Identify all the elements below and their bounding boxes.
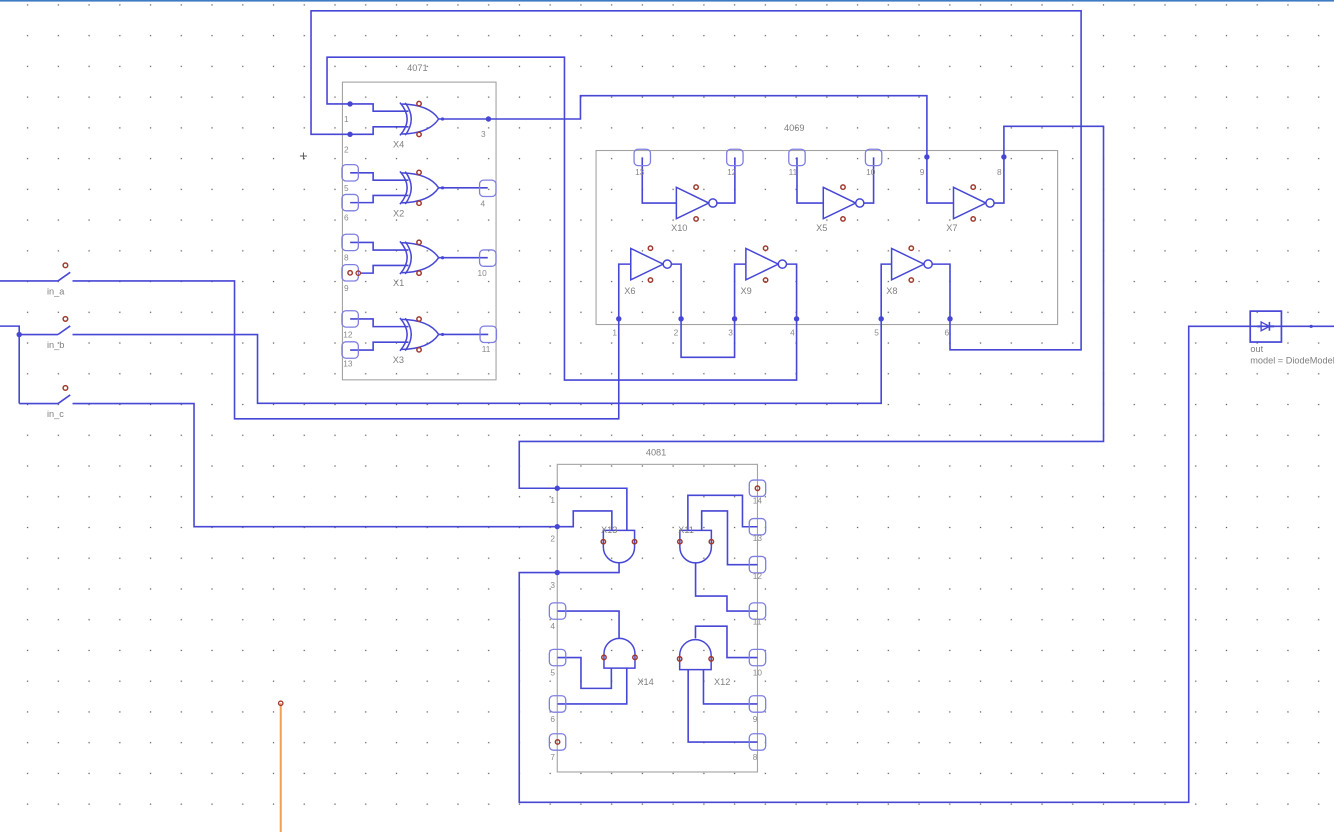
svg-text:in_c: in_c	[47, 409, 64, 419]
svg-text:3: 3	[481, 129, 486, 139]
svg-text:8: 8	[344, 253, 349, 263]
node 4081 pin 1	[555, 486, 560, 491]
wire net X9 out to X4 pin 1	[327, 57, 797, 380]
highlighted net (orange)	[279, 701, 283, 832]
svg-text:9: 9	[753, 714, 758, 724]
svg-text:8: 8	[997, 167, 1002, 177]
terminal 4071 pin 8	[342, 234, 358, 250]
wire net X7 out to 4081 pin 1 / X13 input B	[519, 126, 1103, 530]
node 4069 pin 8	[1001, 154, 1006, 159]
wire net in_c to 4081 pin 2 / X13 input A	[73, 404, 612, 531]
svg-text:12: 12	[753, 571, 763, 581]
terminal 4071 pin 9 (open)	[342, 265, 358, 281]
terminal 4081 pin 10	[749, 649, 765, 665]
wire 4081 pin 12 to X11 input B	[702, 511, 758, 565]
wire X2 pin 6 lead	[350, 195, 408, 202]
wire X1 pin 9 lead	[361, 265, 409, 273]
svg-text:X12: X12	[714, 677, 730, 687]
svg-text:14: 14	[753, 495, 763, 505]
terminal 4081 pin 5	[549, 649, 565, 665]
terminal 4081 pin 8	[749, 734, 765, 750]
wire X1 output to pin 10	[439, 257, 488, 259]
wire X1 pin 8 lead	[350, 242, 408, 250]
wire 4069 pin 13 to X10 input	[642, 157, 676, 203]
wire X2 output to pin 4	[439, 187, 488, 189]
svg-text:13: 13	[635, 167, 645, 177]
svg-text:X7: X7	[946, 223, 957, 233]
svg-text:3: 3	[550, 580, 555, 590]
wire X3 pin 12 lead	[350, 319, 408, 327]
wire X5 output to pin 10	[863, 157, 874, 203]
terminal 4071 pin 12	[342, 311, 358, 327]
terminal 4071 pin 6	[342, 194, 358, 210]
wire X2 pin 5 lead	[350, 173, 408, 180]
node 4069 pin 4	[794, 316, 799, 321]
terminal 4069 pin 12	[727, 149, 743, 165]
svg-text:5: 5	[550, 668, 555, 678]
terminal 4081 pin 6	[549, 696, 565, 712]
terminal 4071 pin 4	[480, 180, 496, 196]
svg-text:X2: X2	[393, 208, 404, 218]
svg-text:11: 11	[753, 617, 762, 627]
xor gate X2	[400, 170, 444, 205]
switch in_b	[58, 317, 70, 335]
wire 4081 pin 8 to X12 input A	[688, 670, 757, 743]
node in_b tap	[17, 332, 22, 337]
and gate X14 (output up)	[602, 638, 637, 668]
svg-text:1: 1	[612, 328, 617, 338]
svg-text:6: 6	[344, 213, 349, 223]
terminal 4071 pin 11	[480, 326, 496, 342]
node X4 pin 1	[347, 101, 352, 106]
inverter X8	[892, 246, 933, 282]
wire net X8 out to X4 pin 2	[311, 11, 1081, 350]
wire in_b source from left edge	[0, 326, 19, 403]
inverter X10	[676, 185, 717, 221]
svg-text:8: 8	[753, 752, 758, 762]
terminal 4081 pin 14 (open)	[749, 480, 765, 496]
terminal 4069 pin 13	[634, 149, 650, 165]
terminal 4069 pin 11	[789, 149, 805, 165]
IC 4071 boundary box	[342, 82, 496, 380]
node 4069 pin 3	[732, 316, 737, 321]
svg-text:X5: X5	[816, 223, 827, 233]
wire X12 output to pin 10	[695, 626, 757, 657]
wire 4069 pin 11 to X5 input	[797, 157, 823, 203]
svg-text:model = DiodeModel: model = DiodeModel	[1250, 356, 1334, 366]
terminal 4071 pin 5	[342, 165, 358, 181]
wire X3 pin 13 lead	[350, 342, 408, 350]
origin marker +	[300, 153, 307, 160]
svg-text:9: 9	[920, 167, 925, 177]
svg-text:4: 4	[480, 198, 485, 208]
svg-text:X3: X3	[393, 355, 404, 365]
wire net in_a to 4069 pin 1 / X6 input	[73, 264, 631, 419]
svg-text:5: 5	[344, 183, 349, 193]
switch in_c	[58, 386, 70, 404]
node 4069 pin 6	[947, 316, 952, 321]
svg-text:in_a: in_a	[47, 287, 65, 297]
terminal 4071 pin 13	[342, 342, 358, 358]
node 4069 pin 5	[878, 316, 883, 321]
inverter X7	[953, 185, 994, 221]
terminal 4081 pin 11	[749, 603, 765, 619]
wire 4081 pin 4 to X14 output	[558, 611, 620, 639]
svg-text:2: 2	[674, 328, 679, 338]
wire 4081 pin 6 to X14 input B	[558, 668, 627, 704]
svg-text:10: 10	[866, 167, 876, 177]
svg-text:12: 12	[727, 167, 737, 177]
svg-text:1: 1	[344, 114, 349, 124]
node out wire	[1310, 325, 1313, 328]
svg-text:X13: X13	[601, 525, 617, 535]
svg-text:out: out	[1250, 344, 1263, 354]
wire X10 output to pin 12	[716, 157, 735, 203]
svg-text:X1: X1	[393, 278, 404, 288]
svg-text:5: 5	[874, 328, 879, 338]
svg-text:9: 9	[344, 283, 349, 293]
terminal 4081 pin 9	[749, 696, 765, 712]
wire net X13 out / 4081 pin 3 to diode out	[519, 326, 1334, 802]
inverter X6	[631, 246, 672, 282]
and gate X11 (output down)	[678, 530, 714, 563]
terminal 4081 pin 13	[749, 519, 765, 535]
svg-text:12: 12	[343, 329, 353, 339]
svg-text:X10: X10	[671, 223, 687, 233]
svg-text:13: 13	[343, 358, 353, 368]
node 4081 pin 3	[555, 570, 560, 575]
svg-text:11: 11	[789, 167, 798, 177]
wire net X6 out to X9 input	[670, 264, 745, 357]
svg-text:4069: 4069	[784, 123, 804, 133]
open pin X1 input 9	[356, 271, 360, 275]
xor gate X1	[400, 240, 444, 275]
svg-text:13: 13	[753, 533, 763, 543]
wire in_c switch left lead	[19, 403, 58, 405]
wire 4081 pin 9 to X12 input B	[703, 670, 757, 704]
node 4069 pin 2	[678, 316, 683, 321]
IC 4081 boundary box	[557, 464, 757, 772]
svg-text:in_b: in_b	[47, 340, 64, 350]
xor gate X3	[400, 317, 444, 352]
wire 4081 pin 13 to X11 input A	[688, 495, 758, 530]
node 4069 pin 1	[616, 316, 621, 321]
terminal 4069 pin 10	[865, 149, 881, 165]
svg-text:10: 10	[753, 668, 763, 678]
svg-text:1: 1	[550, 495, 555, 505]
svg-text:2: 2	[344, 144, 349, 154]
and gate X12 (output up)	[677, 640, 713, 670]
IC 4069 boundary box	[596, 151, 1058, 325]
wire net X4 out to 4069 pin 9 / X7 input	[439, 96, 954, 203]
inverter X5	[823, 185, 864, 221]
and gate X13 (output down)	[601, 530, 637, 562]
node 4069 pin 9	[924, 154, 929, 159]
wire X4 pin 1 lead	[350, 104, 409, 111]
xor gate X4	[400, 101, 444, 136]
svg-text:10: 10	[478, 268, 488, 278]
terminal 4071 pin 10	[480, 250, 496, 266]
svg-text:X14: X14	[637, 677, 653, 687]
wire X4 pin 2 lead	[350, 127, 409, 135]
svg-text:6: 6	[550, 714, 555, 724]
node X4 output	[486, 116, 491, 121]
svg-text:11: 11	[482, 344, 491, 354]
svg-text:2: 2	[550, 533, 555, 543]
svg-text:X4: X4	[393, 140, 404, 150]
wire X11 output to pin 11	[696, 563, 758, 611]
svg-text:X8: X8	[886, 286, 897, 296]
svg-text:3: 3	[728, 328, 733, 338]
svg-text:7: 7	[550, 752, 555, 762]
svg-text:X11: X11	[678, 525, 694, 535]
wire in_b switch left lead	[19, 334, 58, 336]
svg-text:4081: 4081	[646, 447, 666, 457]
svg-text:X9: X9	[740, 286, 751, 296]
wire net in_b to 4069 pin 5 / X8 input	[73, 264, 892, 403]
wire in_a left lead	[0, 280, 58, 282]
svg-text:4: 4	[790, 328, 795, 338]
wire 4081 pin 5 to X14 input A	[558, 658, 612, 689]
window top bar	[0, 0, 1334, 2]
node 4081 pin 2	[555, 524, 560, 529]
terminal 4081 pin 7 (open)	[549, 734, 565, 750]
svg-text:4071: 4071	[407, 63, 427, 73]
switch in_a	[58, 263, 70, 281]
terminal 4081 pin 4	[549, 603, 565, 619]
svg-text:6: 6	[944, 328, 949, 338]
svg-text:4: 4	[550, 621, 555, 631]
svg-text:X6: X6	[624, 286, 635, 296]
wire X3 output to pin 11	[439, 333, 489, 335]
terminal 4081 pin 12	[749, 556, 765, 572]
inverter X9	[746, 246, 787, 282]
node X4 pin 2	[347, 132, 352, 137]
diode out	[1250, 311, 1281, 342]
